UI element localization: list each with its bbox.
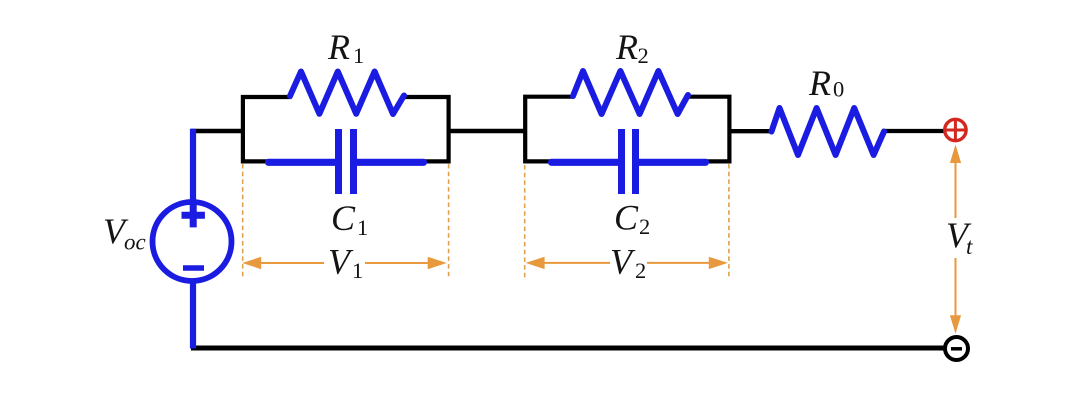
dashed guide line under R1C1 right edge <box>448 164 450 278</box>
svg-text:t: t <box>966 234 973 259</box>
svg-text:0: 0 <box>833 76 844 101</box>
svg-text:V: V <box>610 241 636 281</box>
svg-text:R: R <box>327 27 350 67</box>
node + terminal (red circled plus) <box>945 119 966 140</box>
label C2 <box>614 197 650 239</box>
wire blue source bottom lead <box>190 279 196 349</box>
node - terminal (black circled minus) <box>945 337 968 360</box>
svg-text:oc: oc <box>124 230 146 255</box>
label V1 <box>328 241 363 283</box>
node box R1C1 (black rectangle frame) <box>243 97 449 161</box>
svg-text:1: 1 <box>357 215 368 240</box>
wire between R1C1 block and R2C2 block <box>449 129 526 133</box>
capacitor C2 <box>552 129 706 194</box>
svg-text:V: V <box>328 241 354 281</box>
svg-text:1: 1 <box>352 258 363 283</box>
label R2 <box>615 27 649 68</box>
resistor R1 <box>290 72 404 115</box>
measurement arrow V2 (double-headed) <box>526 257 728 269</box>
svg-text:2: 2 <box>638 43 649 68</box>
resistor R2 <box>573 71 688 114</box>
label R1 <box>327 27 364 68</box>
svg-text:C: C <box>614 197 639 237</box>
resistor R0 <box>772 108 885 155</box>
svg-text:2: 2 <box>635 258 646 283</box>
label R0 <box>808 63 844 103</box>
label Vt <box>946 215 973 259</box>
measurement arrow V1 (double-headed) <box>242 257 447 269</box>
capacitor C1 <box>269 129 424 194</box>
svg-text:1: 1 <box>353 43 364 68</box>
dashed guide line under R2C2 left edge <box>524 165 526 278</box>
wire from R0 to positive terminal <box>882 129 946 133</box>
dashed guide line under R2C2 right edge <box>728 164 730 278</box>
label V2 <box>610 241 646 283</box>
wire from R2C2 block to R0 <box>729 129 773 133</box>
voltage source Voc (blue circle with polarity) <box>153 202 232 281</box>
label Voc <box>103 211 146 255</box>
svg-text:R: R <box>808 63 831 103</box>
svg-text:2: 2 <box>639 214 650 239</box>
node box R2C2 (black rectangle frame) <box>525 97 729 162</box>
svg-text:C: C <box>331 198 356 238</box>
label C1 <box>331 198 368 240</box>
svg-text:R: R <box>615 27 638 67</box>
wire blue source top lead <box>190 129 196 204</box>
measurement arrow Vt (vertical double-headed) <box>950 145 961 334</box>
wire bottom return from source to negative terminal <box>191 346 944 351</box>
dashed guide line under R1C1 left edge <box>242 164 244 278</box>
wire top-left horizontal from source to R1C1 block <box>191 129 243 133</box>
